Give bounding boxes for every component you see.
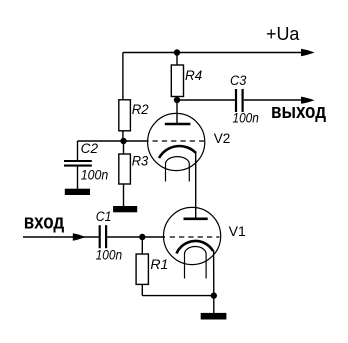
ground under V1 cathode: [201, 313, 227, 320]
tube V2 heater legs: [166, 164, 190, 182]
wire top rail horizontal: [123, 52, 303, 54]
tube V1 heater legs: [185, 254, 207, 279]
junction node at top rail and R4: [174, 49, 180, 55]
svg-text:R3: R3: [132, 154, 149, 169]
svg-text:C1: C1: [96, 209, 112, 224]
wire R1 to cathode junction horizontal: [142, 295, 214, 297]
wire R2 top vertical: [122, 53, 124, 100]
junction node cathode/R1/ground: [211, 292, 217, 298]
wire grid row horizontal to V2: [78, 140, 149, 142]
arrow +Ua supply: [301, 49, 315, 56]
svg-text:100n: 100n: [96, 248, 123, 263]
resistor R1: [136, 254, 148, 284]
svg-text:+Ua: +Ua: [266, 23, 300, 44]
ground under C2: [65, 189, 90, 195]
capacitor C3 plates: [236, 89, 243, 112]
wire R2 bottom to grid node: [122, 131, 124, 141]
junction node C1/R1/V1 grid: [139, 234, 145, 240]
junction node R2/R3/C2/V2 grid: [120, 138, 126, 144]
svg-text:R1: R1: [150, 257, 168, 272]
junction node R4 bottom / C3: [174, 97, 180, 103]
svg-text:R2: R2: [132, 102, 149, 117]
wire R1 top drop: [141, 237, 143, 254]
svg-text:C2: C2: [81, 141, 99, 156]
svg-text:R4: R4: [185, 68, 202, 83]
wire C3 row left segment: [177, 99, 235, 101]
wire R4 bottom to V2 anode: [176, 97, 178, 124]
arrow input: [73, 233, 86, 240]
tube V2 heater arc: [166, 157, 190, 164]
svg-text:C3: C3: [230, 73, 247, 88]
svg-text:100n: 100n: [233, 110, 259, 125]
wire C2 top drop: [77, 141, 79, 160]
wire input horizontal left: [23, 236, 99, 238]
arrow output: [301, 97, 315, 104]
resistor R4: [171, 65, 183, 97]
tube V1 grid dashed line: [170, 236, 220, 238]
svg-text:V2: V2: [214, 131, 231, 146]
svg-text:вход: вход: [24, 211, 64, 234]
tube V1 heater arc: [185, 246, 207, 254]
wire V2 cathode to V1 anode: [195, 153, 197, 219]
capacitor C2 plates: [64, 161, 92, 166]
wire R1 bottom vertical: [141, 284, 143, 295]
resistor R2: [119, 100, 131, 131]
wire R4 top vertical: [176, 53, 178, 66]
capacitor C1 plates: [100, 225, 106, 248]
svg-text:100n: 100n: [81, 167, 109, 182]
wire input after C1 to V1 grid: [107, 236, 165, 238]
wire R3 top vertical: [123, 141, 125, 154]
wire C3 row right segment to output arrow: [244, 99, 303, 101]
svg-text:V1: V1: [229, 224, 246, 239]
wire R3 bottom to ground: [123, 184, 125, 206]
tube V1 envelope: [164, 207, 221, 264]
tube V2 envelope: [148, 113, 205, 170]
tube V2 cathode arc: [159, 146, 196, 158]
ground under R3: [113, 206, 137, 212]
tube V1 cathode arc: [177, 241, 214, 254]
tube V2 anode plate: [165, 123, 191, 126]
wire V1 cathode lead: [213, 250, 215, 296]
resistor R3: [119, 154, 131, 184]
tube V2 grid dashed line: [153, 140, 205, 142]
tube V1 anode plate: [184, 218, 208, 221]
wire C2 bottom to ground: [77, 167, 79, 189]
svg-text:выход: выход: [271, 100, 326, 123]
wire junction to ground: [213, 296, 215, 314]
